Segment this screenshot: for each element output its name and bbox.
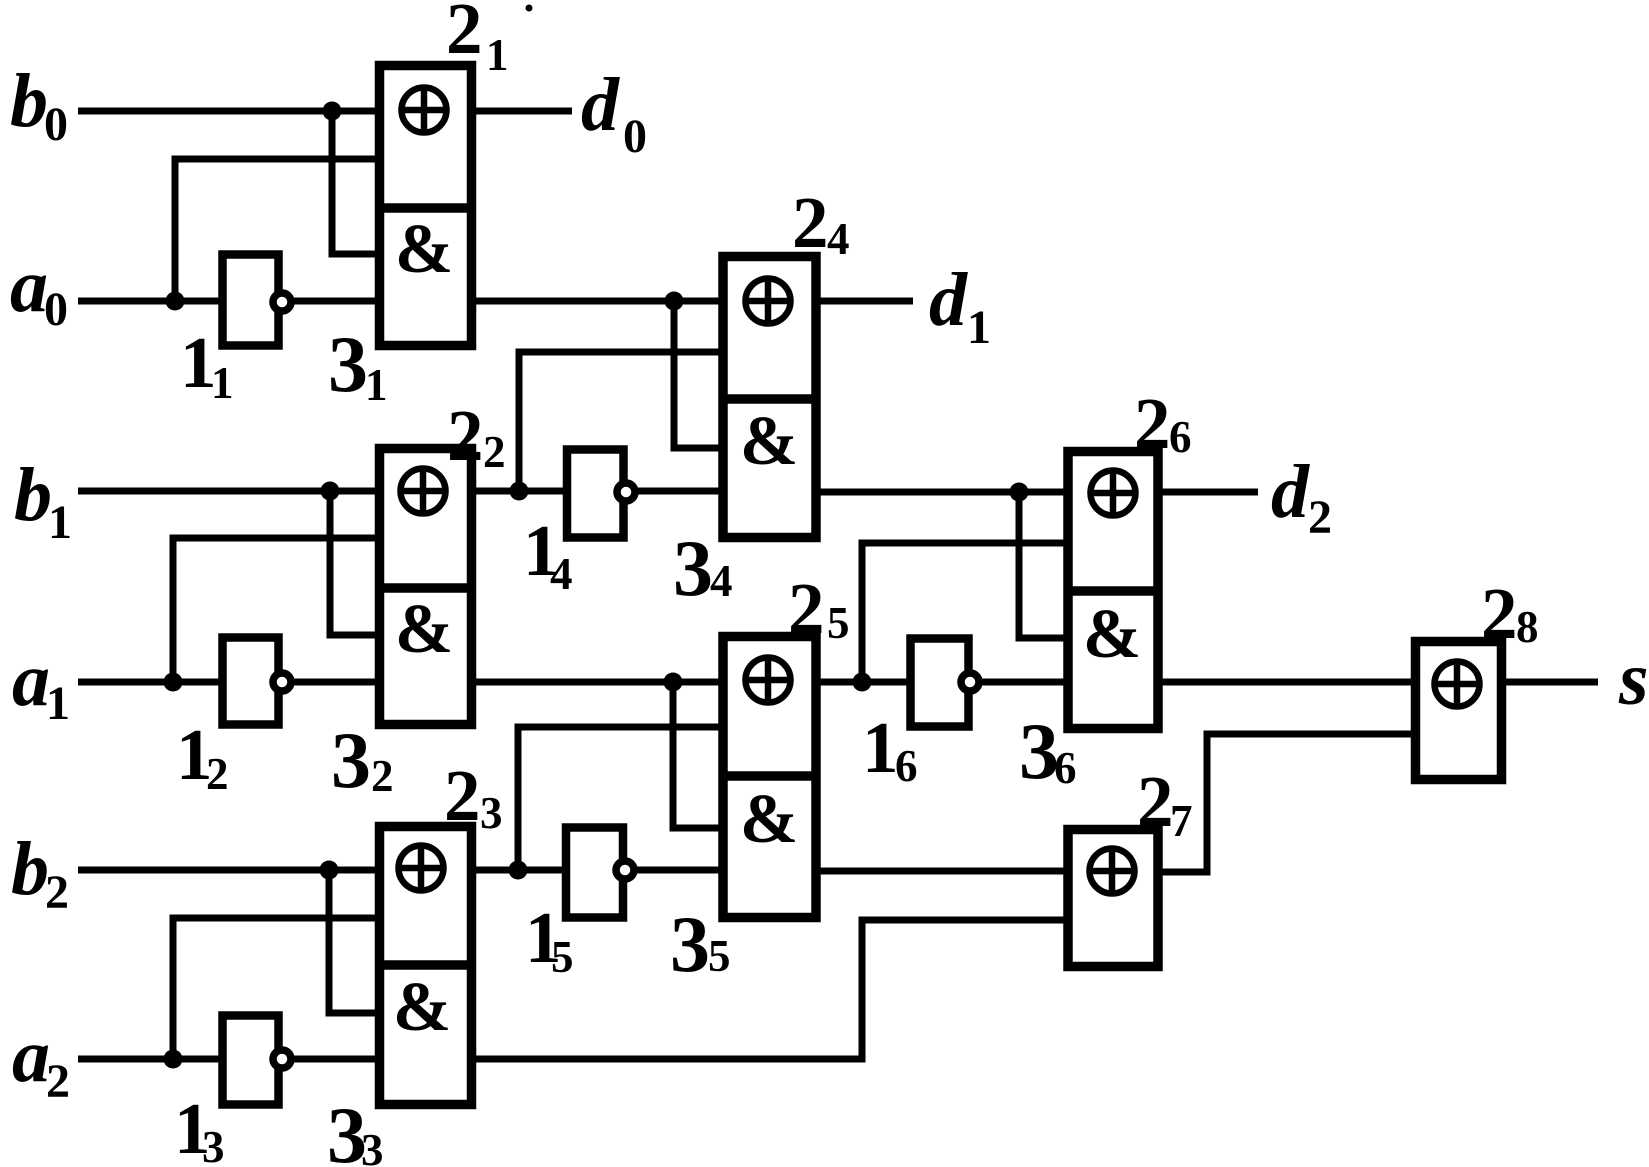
svg-text:d: d bbox=[929, 258, 968, 342]
svg-text:3: 3 bbox=[673, 525, 713, 613]
svg-text:a: a bbox=[12, 1014, 50, 1098]
svg-text:2: 2 bbox=[1481, 573, 1518, 654]
svg-text:&: & bbox=[395, 591, 453, 668]
svg-text:2: 2 bbox=[483, 427, 506, 477]
svg-text:4: 4 bbox=[550, 549, 573, 599]
svg-text:3: 3 bbox=[670, 901, 710, 989]
svg-text:6: 6 bbox=[1169, 412, 1192, 462]
svg-text:2: 2 bbox=[792, 182, 829, 263]
svg-text:2: 2 bbox=[447, 395, 484, 476]
svg-text:4: 4 bbox=[710, 556, 733, 606]
svg-text:3: 3 bbox=[328, 321, 368, 409]
svg-text:5: 5 bbox=[551, 932, 574, 982]
svg-text:1: 1 bbox=[211, 358, 234, 408]
svg-text:&: & bbox=[740, 781, 798, 858]
svg-text:b: b bbox=[10, 59, 48, 143]
svg-text:2: 2 bbox=[446, 0, 483, 69]
svg-text:3: 3 bbox=[361, 1125, 384, 1167]
svg-text:1: 1 bbox=[48, 496, 72, 549]
svg-text:2: 2 bbox=[1137, 761, 1174, 842]
svg-text:b: b bbox=[14, 453, 52, 537]
svg-text:&: & bbox=[1083, 596, 1141, 673]
svg-text:6: 6 bbox=[895, 741, 918, 791]
svg-text:3: 3 bbox=[331, 717, 371, 805]
svg-text:2: 2 bbox=[371, 751, 394, 801]
svg-text:a: a bbox=[10, 244, 48, 328]
svg-text:a: a bbox=[12, 638, 50, 722]
svg-text:d: d bbox=[581, 63, 620, 147]
svg-text:5: 5 bbox=[708, 931, 731, 981]
svg-text:&: & bbox=[393, 969, 451, 1046]
svg-text:2: 2 bbox=[444, 755, 481, 836]
svg-text:6: 6 bbox=[1054, 743, 1077, 793]
svg-text:0: 0 bbox=[623, 110, 647, 163]
svg-text:2: 2 bbox=[45, 866, 69, 919]
svg-text:b: b bbox=[11, 827, 49, 911]
svg-text:d: d bbox=[1271, 450, 1310, 534]
svg-text:1: 1 bbox=[967, 301, 991, 354]
svg-text:s: s bbox=[1618, 637, 1649, 721]
svg-text:2: 2 bbox=[788, 568, 825, 649]
svg-text:4: 4 bbox=[827, 214, 850, 264]
svg-text:&: & bbox=[395, 211, 453, 288]
svg-text:1: 1 bbox=[365, 360, 388, 410]
svg-text:&: & bbox=[740, 403, 798, 480]
svg-text:5: 5 bbox=[827, 598, 850, 648]
svg-text:1: 1 bbox=[46, 677, 70, 730]
svg-text:2: 2 bbox=[1134, 383, 1171, 464]
svg-text:3: 3 bbox=[480, 788, 503, 838]
svg-text:8: 8 bbox=[1516, 602, 1539, 652]
svg-text:2: 2 bbox=[1308, 491, 1332, 544]
svg-text:2: 2 bbox=[46, 1055, 70, 1108]
svg-text:3: 3 bbox=[1019, 708, 1059, 796]
svg-text:1: 1 bbox=[486, 30, 509, 80]
svg-text:1: 1 bbox=[862, 707, 899, 788]
svg-text:0: 0 bbox=[44, 283, 68, 336]
svg-text:3: 3 bbox=[202, 1122, 225, 1167]
svg-text:7: 7 bbox=[1170, 796, 1193, 846]
svg-text:2: 2 bbox=[206, 749, 229, 799]
svg-text:0: 0 bbox=[44, 98, 68, 151]
